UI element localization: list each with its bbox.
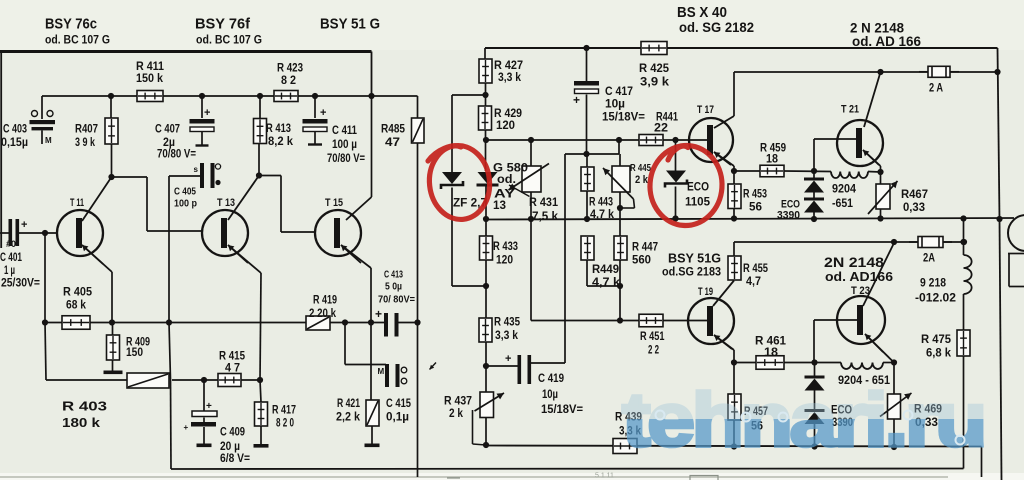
svg-text:1 µ: 1 µ [4,265,15,277]
svg-text:0,33: 0,33 [903,202,925,214]
svg-text:120: 120 [496,120,515,132]
svg-text:3,9 k: 3,9 k [640,77,670,89]
svg-text:T 11: T 11 [70,197,84,209]
svg-text:R 427: R 427 [494,60,523,72]
svg-text:BSY 51G: BSY 51G [668,252,721,266]
svg-text:R 413: R 413 [266,123,291,135]
svg-text:C 403: C 403 [3,124,27,136]
svg-text:150 k: 150 k [136,73,164,85]
svg-text:47: 47 [385,137,400,149]
svg-text:R 435: R 435 [494,317,521,329]
svg-text:100 p: 100 p [174,198,197,210]
svg-text:8 2: 8 2 [281,75,296,87]
svg-text:4,7 k: 4,7 k [592,277,621,289]
svg-text:C 407: C 407 [155,124,180,136]
svg-text:C 413: C 413 [384,270,403,281]
svg-text:R 475: R 475 [921,334,952,346]
svg-text:R407: R407 [75,124,98,136]
svg-text:3,3 k: 3,3 k [495,330,519,342]
svg-text:180 k: 180 k [62,415,101,430]
svg-text:+: + [206,401,212,412]
svg-text:-012.02: -012.02 [915,293,956,305]
svg-text:R 423: R 423 [277,63,303,75]
svg-text:T 23: T 23 [851,285,870,297]
svg-text:3 9 k: 3 9 k [75,137,95,149]
svg-text:od.: od. [497,174,516,186]
svg-text:8 2 0: 8 2 0 [276,418,294,430]
svg-text:3390: 3390 [777,210,800,222]
svg-text:4 7: 4 7 [225,363,240,375]
svg-text:R 419: R 419 [313,295,337,307]
svg-text:BSY 51 G: BSY 51 G [320,16,380,33]
svg-text:5 1 11: 5 1 11 [595,473,614,480]
svg-text:T 19: T 19 [698,286,713,298]
svg-text:0,1µ: 0,1µ [386,412,409,424]
svg-text:4,7 k: 4,7 k [590,209,615,221]
svg-text:2,2 k: 2,2 k [336,412,361,424]
svg-text:G 580: G 580 [493,163,528,175]
svg-text:+: + [320,107,326,119]
svg-text:C 417: C 417 [605,86,633,98]
svg-text:20 µ: 20 µ [220,441,240,453]
svg-text:2µ: 2µ [163,137,175,149]
svg-text:R 403: R 403 [62,399,107,414]
svg-text:56: 56 [749,202,762,214]
svg-text:BSY 76f: BSY 76f [195,16,251,33]
svg-text:M: M [378,367,385,376]
svg-text:+: + [204,107,210,119]
svg-text:9 218: 9 218 [920,278,947,290]
svg-text:+: + [21,219,27,231]
svg-text:2A: 2A [923,253,935,265]
svg-text:+: + [505,353,511,365]
svg-text:25/30V=: 25/30V= [1,278,40,290]
svg-text:2 20 k: 2 20 k [309,308,337,320]
svg-text:2 k: 2 k [635,174,649,186]
svg-text:1105: 1105 [685,197,711,209]
svg-text:150: 150 [126,347,143,359]
svg-text:2 A: 2 A [929,83,943,95]
svg-text:10µ: 10µ [605,99,625,111]
svg-text:M: M [45,136,52,145]
svg-text:R 411: R 411 [136,61,165,73]
svg-text:9204: 9204 [832,184,857,196]
svg-text:R 445: R 445 [630,163,651,174]
svg-text:R 433: R 433 [493,241,518,253]
svg-text:R 425: R 425 [639,63,670,75]
svg-text:T 21: T 21 [841,104,859,116]
svg-text:C 411: C 411 [332,125,357,137]
svg-text:10µ: 10µ [542,389,558,401]
svg-text:R 415: R 415 [219,351,246,363]
svg-text:C 419: C 419 [538,373,564,385]
svg-text:C 409: C 409 [220,427,245,439]
svg-text:od. BC 107 G: od. BC 107 G [196,33,262,47]
svg-text:C 401: C 401 [0,252,22,264]
svg-text:od. AD 166: od. AD 166 [852,33,921,49]
svg-text:2 2: 2 2 [648,345,659,357]
svg-text:70/ 80V=: 70/ 80V= [378,295,415,306]
svg-text:0,15µ: 0,15µ [1,137,28,149]
svg-text:T 13: T 13 [217,197,235,209]
svg-text:70/80 V=: 70/80 V= [327,153,365,165]
svg-text:8,2 k: 8,2 k [268,136,294,148]
svg-text:560: 560 [632,255,651,267]
svg-text:R 443: R 443 [589,197,613,209]
svg-text:od.SG 2183: od.SG 2183 [662,265,721,279]
svg-text:70/80 V=: 70/80 V= [157,148,196,160]
svg-text:2 k: 2 k [449,408,464,420]
svg-text:AY: AY [494,189,515,201]
svg-text:C 415: C 415 [386,398,411,410]
svg-text:R 437: R 437 [444,396,472,408]
svg-text:R 429: R 429 [494,108,522,120]
svg-text:6,8 k: 6,8 k [926,348,952,360]
svg-text:+: + [184,423,189,432]
svg-text:ECO: ECO [687,182,709,194]
svg-text:+: + [573,93,580,107]
svg-text:R 451: R 451 [640,331,665,343]
svg-text:T 17: T 17 [697,104,714,116]
svg-text:13: 13 [493,200,506,212]
svg-text:R 417: R 417 [272,405,296,417]
svg-text:7,5 k: 7,5 k [532,211,559,223]
svg-text:R 461: R 461 [755,336,787,348]
svg-text:+: + [375,307,382,321]
svg-text:R 431: R 431 [529,197,559,209]
svg-text:#0: #0 [6,239,16,249]
svg-text:100 µ: 100 µ [332,139,357,151]
svg-text:od. AD166: od. AD166 [825,269,893,284]
svg-text:R 453: R 453 [743,189,767,201]
svg-text:T 15: T 15 [325,197,343,209]
svg-text:R449: R449 [592,264,619,276]
svg-text:R 421: R 421 [337,398,360,410]
svg-text:od. BC 107 G: od. BC 107 G [45,33,110,47]
svg-text:18: 18 [766,154,779,166]
svg-text:18: 18 [764,347,779,359]
svg-text:5 0µ: 5 0µ [385,282,402,293]
svg-text:120: 120 [496,255,513,267]
svg-text:R 447: R 447 [632,242,658,254]
svg-text:-651: -651 [832,198,854,210]
svg-text:15/18V=: 15/18V= [541,404,583,416]
svg-text:15/18V=: 15/18V= [602,112,645,124]
svg-text:BSY 76c: BSY 76c [45,16,97,33]
svg-text:R 455: R 455 [743,263,768,275]
svg-text:R467: R467 [901,189,928,201]
svg-text:3,3 k: 3,3 k [498,72,522,84]
svg-text:R485: R485 [381,124,406,136]
svg-text:4,7: 4,7 [746,276,761,288]
svg-text:C 405: C 405 [174,186,196,198]
svg-text:68 k: 68 k [66,300,87,312]
svg-text:2N 2148: 2N 2148 [824,255,885,270]
svg-text:R 405: R 405 [63,287,93,299]
svg-text:22: 22 [654,123,668,135]
svg-text:s: s [194,165,199,174]
svg-text:od. SG 2182: od. SG 2182 [679,19,754,35]
svg-text:6/8 V=: 6/8 V= [220,453,250,465]
